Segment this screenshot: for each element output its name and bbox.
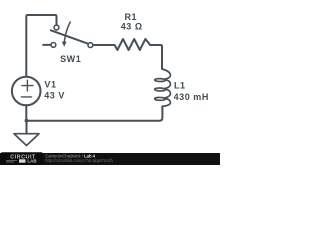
watermark bar — [0, 153, 220, 165]
svg-text:http://circuitlab.com/c/7amjkg: http://circuitlab.com/c/7amjkg67mzfh — [45, 158, 113, 163]
wire top rail — [26, 15, 56, 76]
switch right common terminal — [88, 43, 93, 48]
svg-text:43 Ω: 43 Ω — [121, 22, 143, 32]
junction node dot — [25, 119, 29, 123]
svg-text:V1: V1 — [44, 79, 56, 89]
switch left stub lead — [43, 44, 51, 46]
svg-text:L1: L1 — [174, 80, 186, 90]
watermark logo chip box — [19, 159, 26, 162]
switch left throw terminal — [51, 43, 56, 48]
ground symbol — [14, 134, 39, 146]
V1 minus sign — [21, 96, 31, 98]
svg-text:LAB: LAB — [28, 159, 37, 164]
svg-text:43 V: 43 V — [44, 90, 65, 100]
wire resistor to corner, down right rail — [150, 45, 162, 69]
watermark logo block — [1, 152, 44, 164]
ground stub wire — [26, 121, 28, 134]
svg-text:SW1: SW1 — [60, 54, 81, 64]
resistor R1 — [115, 39, 151, 50]
V1 plus sign — [22, 80, 33, 91]
wire inductor to bottom rail — [27, 106, 163, 121]
wire switch to resistor — [93, 44, 115, 46]
wire V1 bottom — [25, 105, 27, 120]
svg-text:430 mH: 430 mH — [174, 92, 209, 102]
watermark logo lines — [6, 160, 17, 162]
switch actuator arrow — [64, 22, 70, 42]
svg-text:R1: R1 — [124, 12, 137, 22]
switch SW1 — [43, 22, 93, 47]
switch top terminal — [54, 25, 59, 30]
switch blade — [51, 30, 88, 43]
voltage source V1 — [12, 77, 41, 106]
inductor L1 — [155, 69, 171, 106]
